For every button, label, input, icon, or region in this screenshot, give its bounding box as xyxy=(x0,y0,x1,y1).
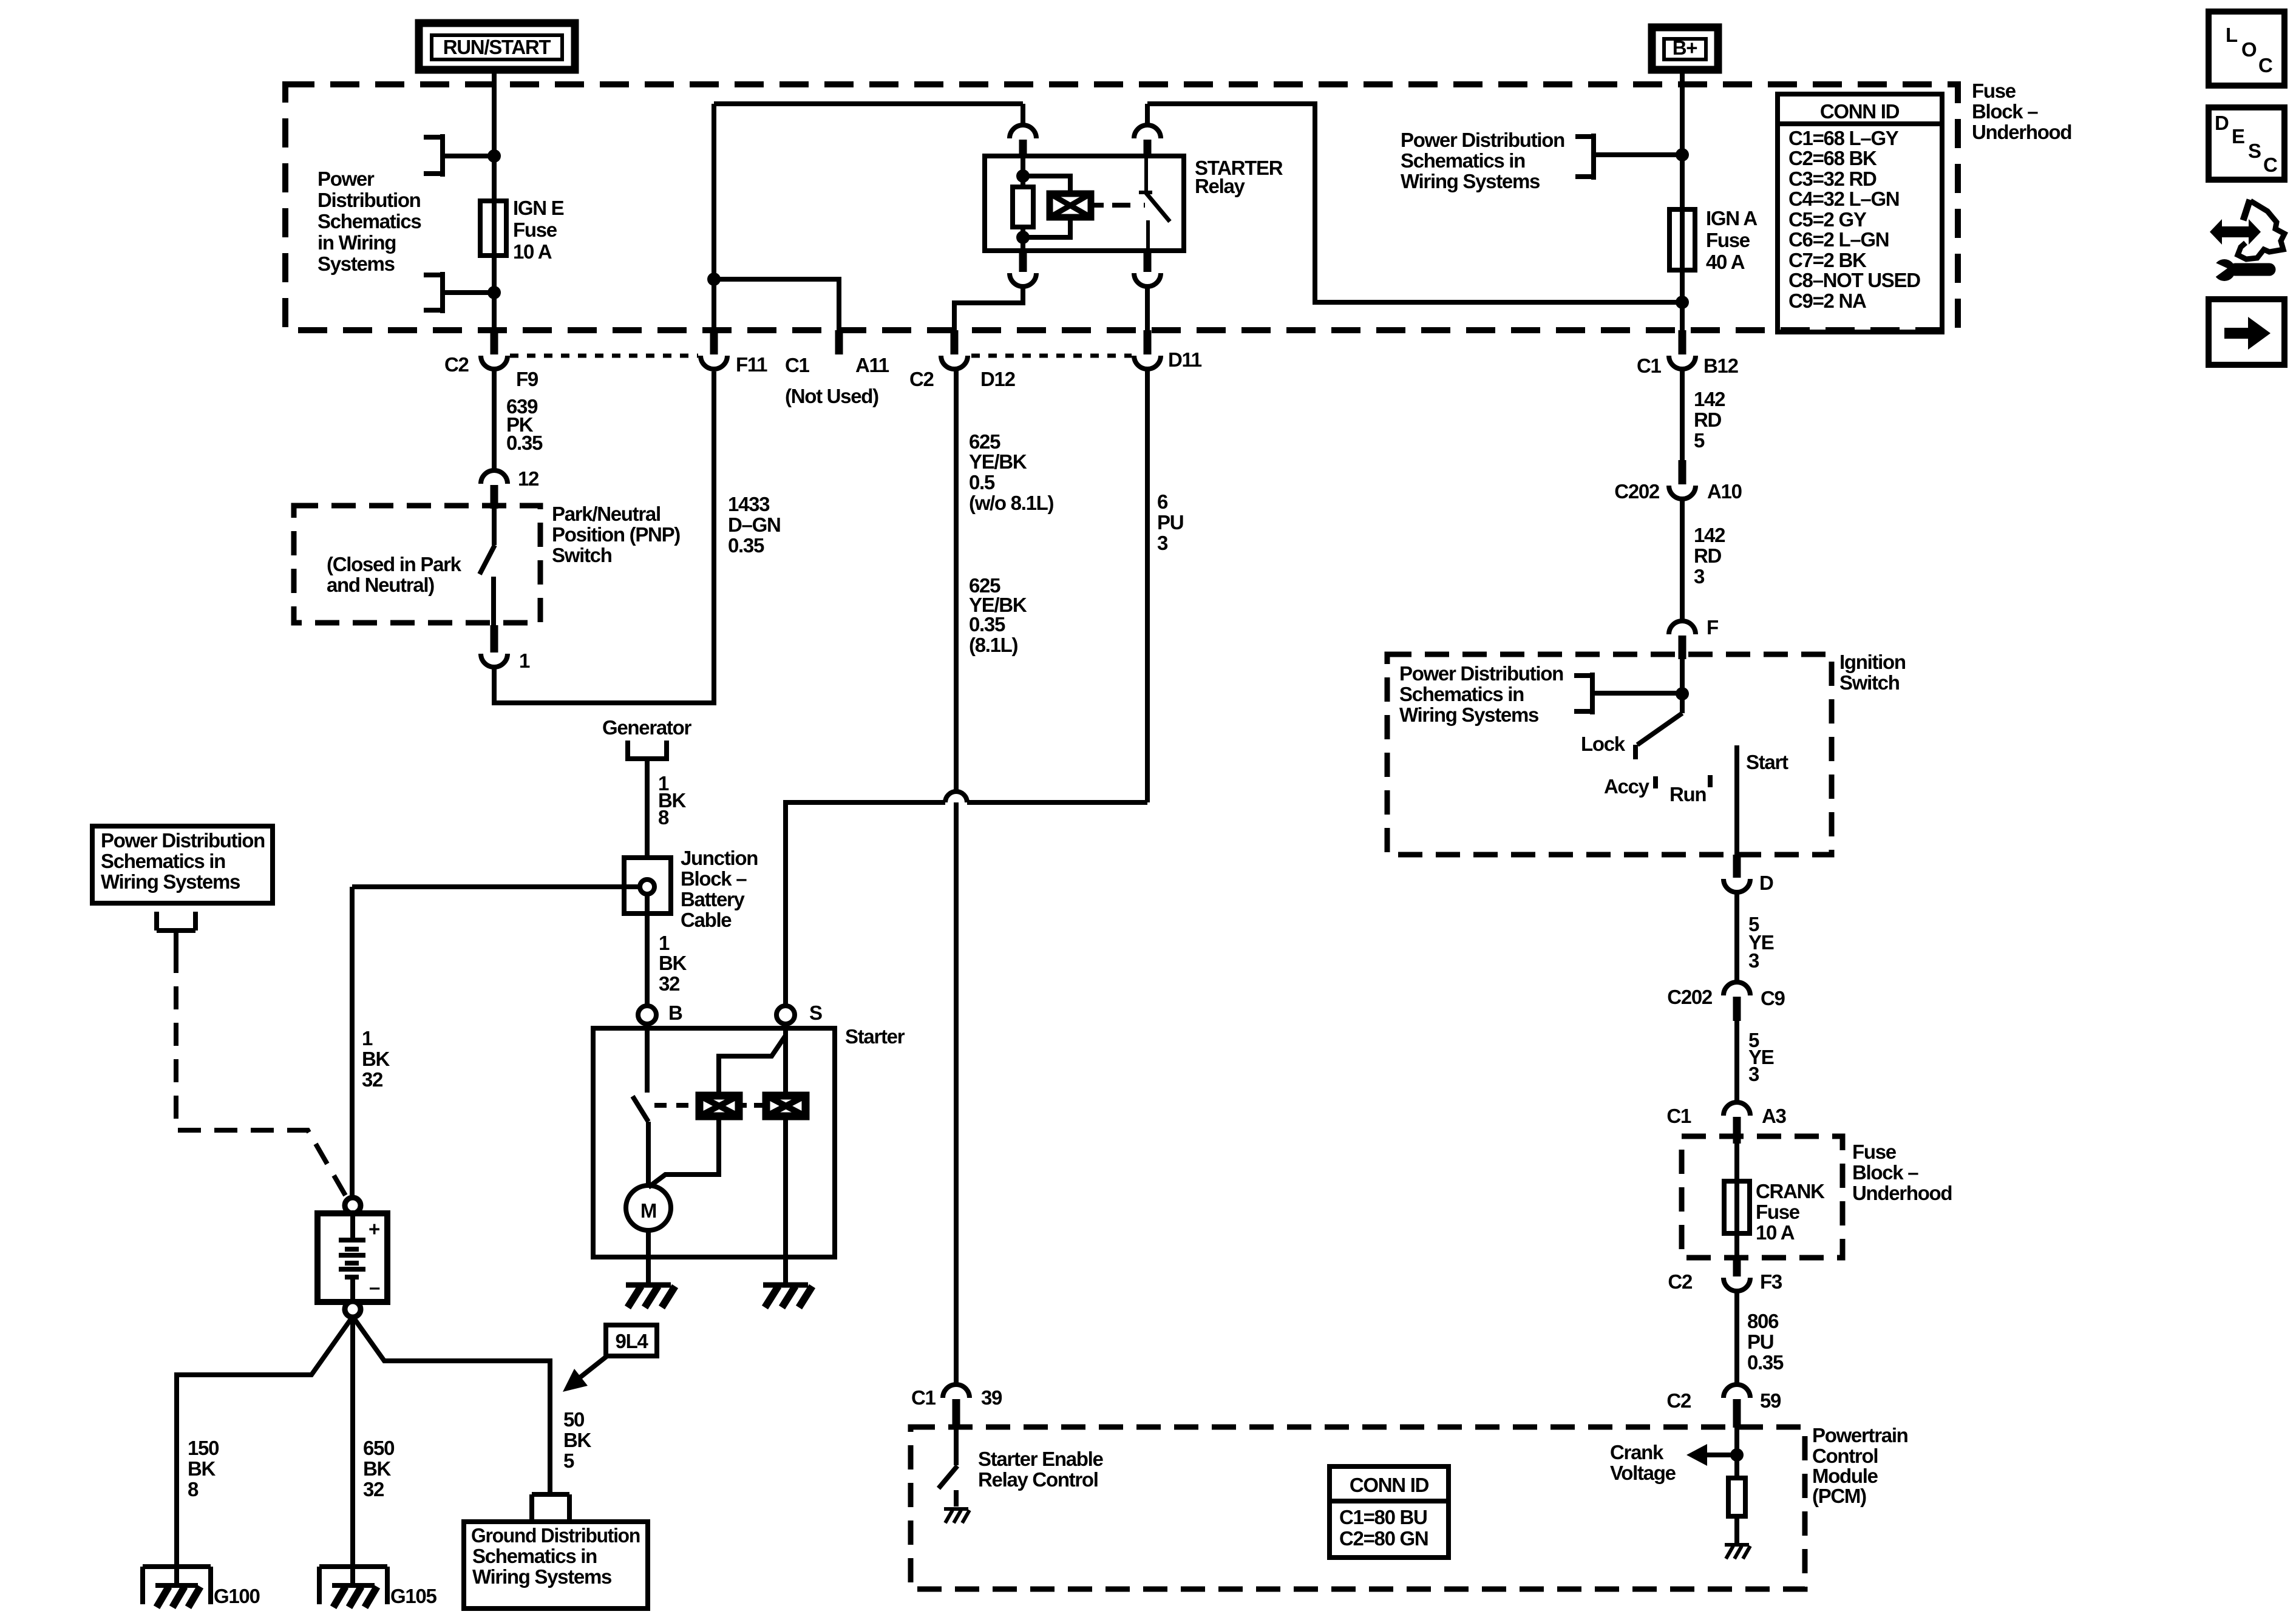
svg-text:C2: C2 xyxy=(1666,1389,1691,1412)
svg-text:B12: B12 xyxy=(1703,354,1739,377)
svg-text:Block –: Block – xyxy=(681,867,747,890)
svg-text:D12: D12 xyxy=(980,368,1016,390)
svg-text:0.35: 0.35 xyxy=(728,534,764,557)
svg-text:C202: C202 xyxy=(1667,986,1713,1008)
svg-text:59: 59 xyxy=(1760,1389,1781,1412)
svg-text:YE/BK: YE/BK xyxy=(969,450,1027,473)
svg-text:3: 3 xyxy=(1748,949,1759,972)
svg-text:1: 1 xyxy=(519,649,530,672)
svg-text:0.35: 0.35 xyxy=(1747,1351,1784,1374)
svg-text:Park/Neutral: Park/Neutral xyxy=(552,503,661,525)
svg-text:S: S xyxy=(809,1002,822,1024)
svg-text:A11: A11 xyxy=(855,354,889,376)
svg-text:C5=2 GY: C5=2 GY xyxy=(1788,208,1867,231)
svg-text:IGN A: IGN A xyxy=(1706,207,1757,229)
svg-text:C1=68 L–GY: C1=68 L–GY xyxy=(1788,127,1899,149)
svg-text:0.5: 0.5 xyxy=(969,471,995,493)
svg-text:Switch: Switch xyxy=(552,544,612,566)
svg-text:Switch: Switch xyxy=(1839,671,1900,694)
svg-text:Wiring Systems: Wiring Systems xyxy=(1399,703,1538,726)
svg-text:in Wiring: in Wiring xyxy=(318,231,396,254)
svg-text:S: S xyxy=(2248,140,2261,162)
svg-text:8: 8 xyxy=(188,1478,199,1500)
svg-text:Powertrain: Powertrain xyxy=(1812,1424,1908,1446)
svg-text:Power Distribution: Power Distribution xyxy=(101,829,265,852)
svg-text:BK: BK xyxy=(659,952,687,974)
svg-text:(w/o 8.1L): (w/o 8.1L) xyxy=(969,492,1053,514)
svg-text:A3: A3 xyxy=(1762,1105,1787,1127)
svg-text:Ground Distribution: Ground Distribution xyxy=(471,1524,640,1547)
svg-text:Wiring Systems: Wiring Systems xyxy=(472,1565,611,1588)
svg-text:C2: C2 xyxy=(909,368,934,390)
svg-text:C2=68 BK: C2=68 BK xyxy=(1788,147,1877,169)
svg-text:IGN E: IGN E xyxy=(513,197,564,219)
svg-text:Power Distribution: Power Distribution xyxy=(1401,129,1564,151)
svg-text:0.35: 0.35 xyxy=(969,613,1005,636)
svg-text:40 A: 40 A xyxy=(1706,251,1745,273)
svg-text:C2: C2 xyxy=(444,353,469,376)
svg-text:C6=2 L–GN: C6=2 L–GN xyxy=(1788,228,1889,251)
svg-text:Wiring Systems: Wiring Systems xyxy=(101,870,240,893)
svg-text:Schematics: Schematics xyxy=(318,210,421,232)
svg-text:5: 5 xyxy=(563,1449,574,1472)
svg-text:Voltage: Voltage xyxy=(1610,1462,1676,1484)
svg-text:10 A: 10 A xyxy=(513,240,552,263)
svg-text:C9: C9 xyxy=(1761,987,1785,1009)
svg-text:625: 625 xyxy=(969,430,1000,453)
svg-text:Wiring Systems: Wiring Systems xyxy=(1401,170,1540,192)
svg-text:(8.1L): (8.1L) xyxy=(969,634,1018,656)
svg-text:C7=2 BK: C7=2 BK xyxy=(1788,249,1867,271)
svg-text:PU: PU xyxy=(1157,511,1183,534)
svg-text:CONN ID: CONN ID xyxy=(1820,100,1900,123)
svg-text:Control: Control xyxy=(1812,1445,1878,1467)
svg-text:G105: G105 xyxy=(390,1585,436,1607)
svg-text:D–GN: D–GN xyxy=(728,514,781,536)
svg-text:Battery: Battery xyxy=(681,888,746,910)
svg-text:Distribution: Distribution xyxy=(318,189,421,211)
svg-text:8: 8 xyxy=(658,806,669,829)
svg-text:B+: B+ xyxy=(1673,36,1697,59)
svg-text:B: B xyxy=(668,1002,682,1024)
svg-text:F: F xyxy=(1707,616,1718,639)
svg-text:Fuse: Fuse xyxy=(1706,229,1750,251)
svg-text:C2=80 GN: C2=80 GN xyxy=(1339,1527,1428,1550)
svg-text:RD: RD xyxy=(1694,408,1722,431)
svg-text:BK: BK xyxy=(363,1457,392,1480)
svg-text:Module: Module xyxy=(1812,1465,1878,1487)
svg-text:C8–NOT USED: C8–NOT USED xyxy=(1788,269,1920,291)
svg-text:1: 1 xyxy=(362,1027,373,1049)
svg-text:Ignition: Ignition xyxy=(1839,651,1906,673)
svg-text:39: 39 xyxy=(981,1386,1002,1409)
svg-text:(Not Used): (Not Used) xyxy=(785,385,878,407)
svg-text:1: 1 xyxy=(659,932,670,954)
svg-text:6: 6 xyxy=(1157,490,1168,513)
svg-text:Run: Run xyxy=(1669,783,1706,805)
svg-text:(PCM): (PCM) xyxy=(1812,1485,1866,1507)
svg-text:CRANK: CRANK xyxy=(1756,1180,1825,1202)
svg-text:3: 3 xyxy=(1157,532,1168,554)
svg-text:Starter: Starter xyxy=(845,1025,905,1048)
svg-text:0.35: 0.35 xyxy=(506,432,543,454)
svg-text:Lock: Lock xyxy=(1581,733,1626,755)
svg-text:32: 32 xyxy=(363,1478,384,1500)
svg-text:A10: A10 xyxy=(1707,480,1742,503)
svg-text:Generator: Generator xyxy=(602,716,691,739)
svg-text:Schematics in: Schematics in xyxy=(1401,149,1525,172)
svg-text:C3=32 RD: C3=32 RD xyxy=(1788,168,1877,190)
svg-text:Start: Start xyxy=(1746,751,1788,773)
svg-text:BK: BK xyxy=(563,1429,592,1451)
svg-text:Underhood: Underhood xyxy=(1972,121,2071,143)
svg-text:Fuse: Fuse xyxy=(1756,1201,1800,1223)
svg-text:Crank: Crank xyxy=(1610,1441,1664,1463)
svg-text:Schematics in: Schematics in xyxy=(101,850,225,872)
svg-text:650: 650 xyxy=(363,1437,394,1459)
svg-text:L: L xyxy=(2226,24,2238,46)
svg-text:Block –: Block – xyxy=(1852,1161,1918,1184)
svg-text:3: 3 xyxy=(1748,1063,1759,1085)
svg-text:F3: F3 xyxy=(1760,1270,1782,1293)
svg-text:Schematics in: Schematics in xyxy=(1399,683,1524,705)
svg-text:D: D xyxy=(1759,872,1773,894)
svg-text:CONN ID: CONN ID xyxy=(1350,1474,1429,1496)
svg-text:(Closed in Park: (Closed in Park xyxy=(327,553,462,575)
svg-text:806: 806 xyxy=(1747,1310,1779,1332)
svg-text:Schematics in: Schematics in xyxy=(472,1545,597,1567)
svg-text:C2: C2 xyxy=(1668,1270,1693,1293)
svg-text:32: 32 xyxy=(659,972,680,995)
svg-text:Starter Enable: Starter Enable xyxy=(978,1448,1103,1470)
svg-text:Block –: Block – xyxy=(1972,100,2038,123)
svg-text:Accy: Accy xyxy=(1604,775,1650,798)
svg-text:Cable: Cable xyxy=(681,909,732,931)
svg-text:PU: PU xyxy=(1747,1331,1773,1353)
svg-text:10 A: 10 A xyxy=(1756,1221,1795,1244)
svg-text:142: 142 xyxy=(1694,524,1725,546)
svg-text:Junction: Junction xyxy=(681,847,758,869)
svg-text:RUN/START: RUN/START xyxy=(443,36,551,58)
svg-text:9L4: 9L4 xyxy=(616,1330,649,1352)
svg-text:Relay: Relay xyxy=(1195,175,1246,197)
svg-text:D11: D11 xyxy=(1168,348,1202,371)
svg-text:C4=32 L–GN: C4=32 L–GN xyxy=(1788,188,1899,210)
svg-text:RD: RD xyxy=(1694,544,1722,567)
svg-text:E: E xyxy=(2232,125,2244,147)
svg-text:C: C xyxy=(2258,54,2272,76)
svg-text:C202: C202 xyxy=(1614,480,1660,503)
svg-text:150: 150 xyxy=(188,1437,219,1459)
svg-text:D: D xyxy=(2215,112,2229,134)
svg-text:50: 50 xyxy=(563,1408,584,1431)
svg-text:and Neutral): and Neutral) xyxy=(327,574,434,596)
svg-text:Power: Power xyxy=(318,168,375,190)
svg-text:12: 12 xyxy=(518,467,539,490)
svg-text:F9: F9 xyxy=(516,368,538,390)
svg-text:142: 142 xyxy=(1694,388,1725,410)
svg-text:Fuse: Fuse xyxy=(1972,80,2016,102)
svg-text:C1: C1 xyxy=(785,354,810,376)
svg-text:C1: C1 xyxy=(1637,354,1662,377)
svg-text:3: 3 xyxy=(1694,565,1705,588)
svg-text:C1: C1 xyxy=(1666,1105,1691,1127)
svg-text:BK: BK xyxy=(188,1457,216,1480)
svg-text:G100: G100 xyxy=(214,1585,260,1607)
svg-text:Power Distribution: Power Distribution xyxy=(1399,662,1563,685)
svg-text:Position (PNP): Position (PNP) xyxy=(552,523,680,546)
svg-text:M: M xyxy=(640,1199,656,1222)
svg-text:Underhood: Underhood xyxy=(1852,1182,1952,1204)
svg-text:Systems: Systems xyxy=(318,253,395,275)
svg-text:5: 5 xyxy=(1694,429,1705,452)
svg-text:BK: BK xyxy=(362,1048,390,1070)
svg-text:O: O xyxy=(2241,38,2257,61)
svg-text:C1=80 BU: C1=80 BU xyxy=(1339,1506,1427,1528)
svg-text:C: C xyxy=(2263,154,2277,176)
svg-text:Fuse: Fuse xyxy=(1852,1141,1897,1163)
svg-text:F11: F11 xyxy=(736,353,767,376)
svg-text:1433: 1433 xyxy=(728,493,770,515)
svg-text:–: – xyxy=(369,1276,380,1298)
svg-text:32: 32 xyxy=(362,1068,383,1091)
svg-text:C9=2 NA: C9=2 NA xyxy=(1788,290,1866,312)
svg-text:+: + xyxy=(369,1218,379,1240)
svg-text:Relay Control: Relay Control xyxy=(978,1468,1098,1491)
svg-text:C1: C1 xyxy=(911,1386,936,1409)
svg-text:Fuse: Fuse xyxy=(513,219,557,241)
